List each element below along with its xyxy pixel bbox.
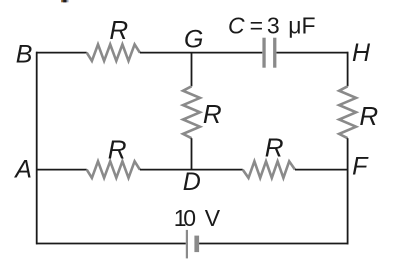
wire resistor to D to resistor (middle) bbox=[140, 169, 243, 171]
wire A to resistor (middle left) bbox=[36, 169, 87, 171]
label C = 3 uF bbox=[228, 13, 316, 39]
node B bbox=[16, 40, 33, 68]
label R (top resistor) bbox=[109, 15, 128, 45]
svg-text:R: R bbox=[265, 133, 284, 163]
svg-text:C=3μF: C=3μF bbox=[228, 13, 316, 39]
label R (right vertical resistor) bbox=[359, 101, 378, 131]
node G bbox=[184, 26, 203, 54]
node F bbox=[352, 153, 369, 181]
svg-text:R: R bbox=[203, 99, 222, 129]
svg-text:B: B bbox=[16, 40, 33, 68]
wire bottom left to battery bbox=[36, 243, 186, 245]
label R (middle vertical resistor) bbox=[203, 99, 222, 129]
wire B to R (top left) bbox=[36, 52, 87, 54]
resistor R middle (G-D) bbox=[183, 86, 200, 138]
battery 10V long plate bbox=[186, 230, 188, 259]
svg-text:G: G bbox=[184, 26, 203, 54]
wire R to capacitor (top middle, node G) bbox=[140, 52, 262, 54]
svg-text:H: H bbox=[352, 39, 371, 67]
wire resistor to F and down to bottom (right side) bbox=[347, 138, 349, 244]
svg-text:10V: 10V bbox=[174, 205, 221, 231]
wire H to resistor (right vertical) bbox=[347, 52, 349, 87]
svg-text:R: R bbox=[359, 101, 378, 131]
svg-text:A: A bbox=[13, 156, 32, 184]
label R (lower-left resistor) bbox=[108, 134, 127, 164]
node H bbox=[352, 39, 371, 67]
resistor R lower-right (D-F) bbox=[243, 161, 295, 178]
capacitor C1 right plate bbox=[273, 38, 276, 68]
wire resistor to D (vertical) bbox=[191, 138, 193, 170]
label 10 V bbox=[174, 205, 221, 231]
wire resistor to F (middle right) bbox=[295, 169, 348, 171]
label R (lower-right resistor) bbox=[265, 133, 284, 163]
svg-text:F: F bbox=[352, 153, 369, 181]
svg-text:R: R bbox=[108, 134, 127, 164]
resistor R right (H-F) bbox=[339, 86, 356, 138]
resistor R lower-left (A-D) bbox=[87, 161, 140, 178]
wire capacitor to H (top right) bbox=[277, 52, 349, 54]
stray text fragment top edge bbox=[61, 0, 68, 2]
node A bbox=[13, 156, 32, 184]
wire G to resistor (vertical) bbox=[191, 53, 193, 87]
battery 10V short plate bbox=[194, 236, 199, 253]
node D bbox=[183, 168, 201, 196]
wire left side B-A-bottom bbox=[36, 52, 38, 245]
svg-text:R: R bbox=[109, 15, 128, 45]
svg-text:D: D bbox=[183, 168, 201, 196]
wire battery to bottom right bbox=[199, 243, 348, 245]
resistor R top (B-G) bbox=[87, 44, 140, 61]
capacitor C1 left plate bbox=[262, 38, 265, 68]
